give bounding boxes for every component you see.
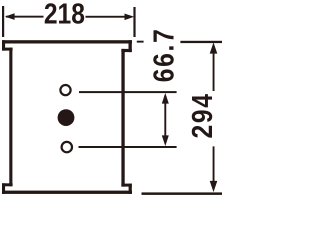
svg-text:218: 218 (44, 0, 85, 30)
dimension 218: right extension line (133, 7, 135, 37)
svg-text:66.7: 66.7 (148, 28, 180, 83)
fixture outline: top-right step (121, 49, 131, 52)
leader line from top hole (79, 91, 177, 93)
dimension 294: top extension line (180, 41, 222, 43)
dimension 218: left extension line (2, 6, 4, 37)
fixture outline: bottom-right flange vertical (129, 184, 132, 194)
hole circle bottom (open) (62, 142, 72, 152)
fixture outline: bottom-left flange vertical (2, 183, 5, 194)
fixture outline: top plate edge (2, 40, 132, 43)
hole circle top (open) (60, 85, 70, 95)
svg-text:294: 294 (186, 92, 218, 138)
fixture outline: bottom plate edge (2, 191, 132, 194)
fixture outline: top-left flange vertical (2, 40, 5, 50)
leader line from bottom hole (79, 146, 177, 148)
dimension 294: upper arrow + line (210, 42, 218, 91)
fixture outline: body left wall (9, 48, 12, 187)
fixture outline: bottom-right step (121, 184, 131, 187)
dimension 294: lower arrow + line (210, 146, 218, 192)
fixture outline: bottom-left step (2, 183, 13, 186)
dimension 294: bottom extension line (142, 192, 223, 195)
fixture outline: body right wall (121, 49, 124, 187)
hole circle middle (filled knockout) (58, 109, 75, 126)
dimension 66.7: dash from flange corner (137, 41, 144, 43)
dimension 218: left arrow + line (5, 13, 44, 20)
fixture outline: top-left step (2, 48, 13, 51)
fixture outline: top-right flange vertical (129, 40, 132, 52)
vertical double-headed arrow between hole leader lines (162, 93, 169, 146)
dimension 218: right arrow + line (86, 14, 135, 21)
